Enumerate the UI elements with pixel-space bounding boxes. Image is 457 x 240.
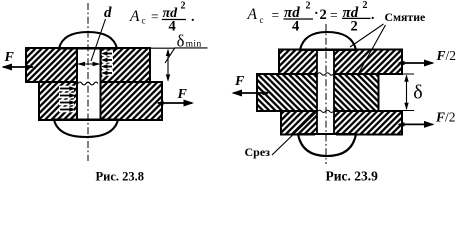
svg-text:2: 2	[181, 1, 186, 12]
shear squiggle top (fig 23.9)	[318, 73, 334, 75]
svg-text:δ: δ	[177, 31, 185, 50]
svg-text:c: c	[142, 16, 146, 26]
leader from d label	[91, 19, 106, 61]
svg-text:.: .	[191, 10, 195, 25]
rivet head bottom (fig 23.9)	[281, 134, 402, 156]
dimension d (fig 23.8)	[77, 62, 101, 66]
centerline (fig 23.9)	[325, 24, 327, 164]
rivet shank (fig 23.8)	[77, 47, 101, 121]
svg-text:2: 2	[306, 0, 311, 11]
svg-text:Смятие: Смятие	[385, 10, 426, 24]
force F right (fig 23.8)	[157, 100, 195, 107]
svg-text:Рис. 23.9: Рис. 23.9	[326, 169, 379, 184]
force F left (fig 23.8)	[2, 64, 35, 71]
svg-text:/2: /2	[446, 48, 457, 63]
svg-text:.: .	[371, 8, 375, 23]
svg-text:d: d	[104, 5, 112, 21]
svg-text:4: 4	[169, 18, 176, 34]
svg-text:A: A	[247, 6, 258, 23]
leader Smjatie to plate top	[350, 24, 384, 47]
svg-text:4: 4	[292, 19, 299, 35]
centerline (fig 23.8)	[87, 3, 89, 161]
svg-text:F: F	[435, 110, 445, 125]
bearing arrows top right (fig 23.8)	[102, 54, 113, 74]
rivet head bottom (fig 23.8)	[39, 120, 162, 137]
plate P1 (top plate, fig 23.8)	[26, 48, 150, 82]
svg-text:=: =	[272, 8, 280, 23]
bearing arrows bottom left (fig 23.8)	[59, 89, 74, 110]
svg-text:F: F	[436, 48, 446, 63]
shear squiggle (fig 23.8)	[78, 82, 98, 85]
leader Srez to shear plane	[272, 112, 317, 155]
svg-text:c: c	[260, 15, 264, 25]
force F left (fig 23.9)	[232, 90, 270, 97]
plate C1 (top cover plate, fig 23.9)	[279, 50, 402, 75]
rivet shank (fig 23.9)	[317, 49, 334, 135]
svg-text:2: 2	[363, 0, 368, 11]
svg-text:·: ·	[314, 7, 319, 22]
shear squiggle bottom (fig 23.9)	[318, 110, 334, 112]
plate C2 (bottom cover plate, fig 23.9)	[281, 111, 402, 135]
svg-text:2: 2	[320, 7, 327, 23]
svg-text:Срез: Срез	[245, 145, 271, 159]
svg-text:/2: /2	[445, 110, 456, 125]
svg-text:Рис. 23.8: Рис. 23.8	[96, 170, 145, 184]
force F/2 bottom (fig 23.9)	[398, 121, 435, 128]
svg-text:F: F	[234, 74, 245, 89]
rivet head top (fig 23.8)	[26, 32, 150, 48]
force F/2 top (fig 23.9)	[398, 60, 435, 67]
formula A_c = pi d^2 / 4 (fig 23.8)	[129, 1, 195, 35]
dimension delta_min (fig 23.8)	[150, 48, 208, 82]
shank edge heal lines (fig 23.8)	[76, 48, 78, 120]
dimension delta (fig 23.9)	[380, 74, 415, 111]
rivet head top (fig 23.9)	[279, 32, 402, 50]
svg-text:=: =	[151, 9, 159, 24]
leader Smjatie to interface	[359, 25, 386, 73]
plate M (middle plate, fig 23.9)	[257, 74, 379, 111]
svg-text:=: =	[330, 8, 338, 23]
svg-text:F: F	[177, 87, 188, 102]
plate P2 (bottom plate, fig 23.8)	[39, 82, 162, 120]
svg-text:δ: δ	[413, 82, 422, 104]
formula A_c = pi d^2/4 * 2 = pi d^2/2 (fig 23.9)	[247, 0, 375, 35]
svg-text:2: 2	[351, 19, 358, 35]
svg-text:F: F	[4, 50, 15, 65]
svg-text:min: min	[186, 40, 202, 50]
svg-text:A: A	[129, 8, 140, 25]
